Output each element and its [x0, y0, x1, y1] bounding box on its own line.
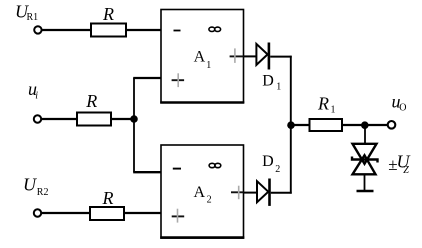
wire [133, 171, 161, 173]
label U_R1 [15, 1, 38, 23]
svg-text:D: D [262, 153, 274, 170]
wire [270, 56, 292, 58]
svg-text:R1: R1 [27, 12, 39, 23]
svg-text:R2: R2 [37, 187, 49, 198]
op-amp A2 [160, 145, 244, 238]
terminal u_O [388, 121, 396, 129]
wire [364, 125, 366, 144]
wire [244, 192, 258, 194]
node junction J2 [287, 121, 295, 129]
label u_O [392, 92, 407, 114]
wire [133, 78, 135, 172]
terminal U_R1 [34, 26, 41, 33]
svg-text:D: D [262, 73, 274, 90]
label u_i [28, 79, 38, 102]
label D2 [262, 153, 280, 175]
svg-text:2: 2 [207, 194, 212, 205]
wire [133, 77, 161, 79]
label D1 [262, 73, 281, 93]
wire [124, 212, 162, 214]
svg-text:A: A [194, 184, 206, 201]
resistor R (middle) [77, 113, 111, 126]
svg-text:R: R [317, 94, 329, 114]
svg-text:O: O [399, 102, 406, 113]
zener diode pair ±UZ [352, 144, 378, 175]
node junction J3 [361, 121, 369, 129]
wire [364, 174, 366, 191]
svg-text:1: 1 [331, 105, 336, 116]
wire [42, 29, 92, 31]
op-amp A1 [160, 10, 244, 103]
label U_R2 [23, 175, 48, 198]
node junction J1 [130, 115, 138, 123]
wire [271, 192, 292, 194]
svg-text:R: R [102, 188, 114, 208]
svg-text:i: i [35, 91, 38, 102]
svg-text:Z: Z [403, 165, 409, 176]
resistor R1 [310, 119, 343, 131]
svg-text:2: 2 [275, 164, 280, 175]
svg-text:R: R [85, 91, 97, 111]
wire [126, 29, 161, 31]
svg-text:1: 1 [276, 82, 281, 93]
wire [291, 124, 310, 126]
wire [342, 124, 387, 126]
resistor R (top) [91, 24, 126, 37]
diode D1 [256, 43, 269, 70]
resistor R (bottom) [90, 207, 124, 220]
wire [41, 212, 90, 214]
wire [111, 118, 134, 120]
svg-text:U: U [23, 175, 37, 195]
wire [244, 55, 257, 57]
label ±UZ [388, 152, 410, 176]
diode D2 [257, 179, 270, 206]
svg-text:1: 1 [206, 60, 211, 71]
terminal u_i [34, 115, 41, 122]
terminal U_R2 [34, 209, 41, 216]
wire [41, 118, 77, 120]
svg-text:A: A [194, 48, 206, 65]
svg-text:R: R [102, 4, 114, 24]
value label R1 [317, 94, 336, 116]
terminal bar (zener bottom) [357, 190, 374, 192]
wire [290, 56, 292, 194]
